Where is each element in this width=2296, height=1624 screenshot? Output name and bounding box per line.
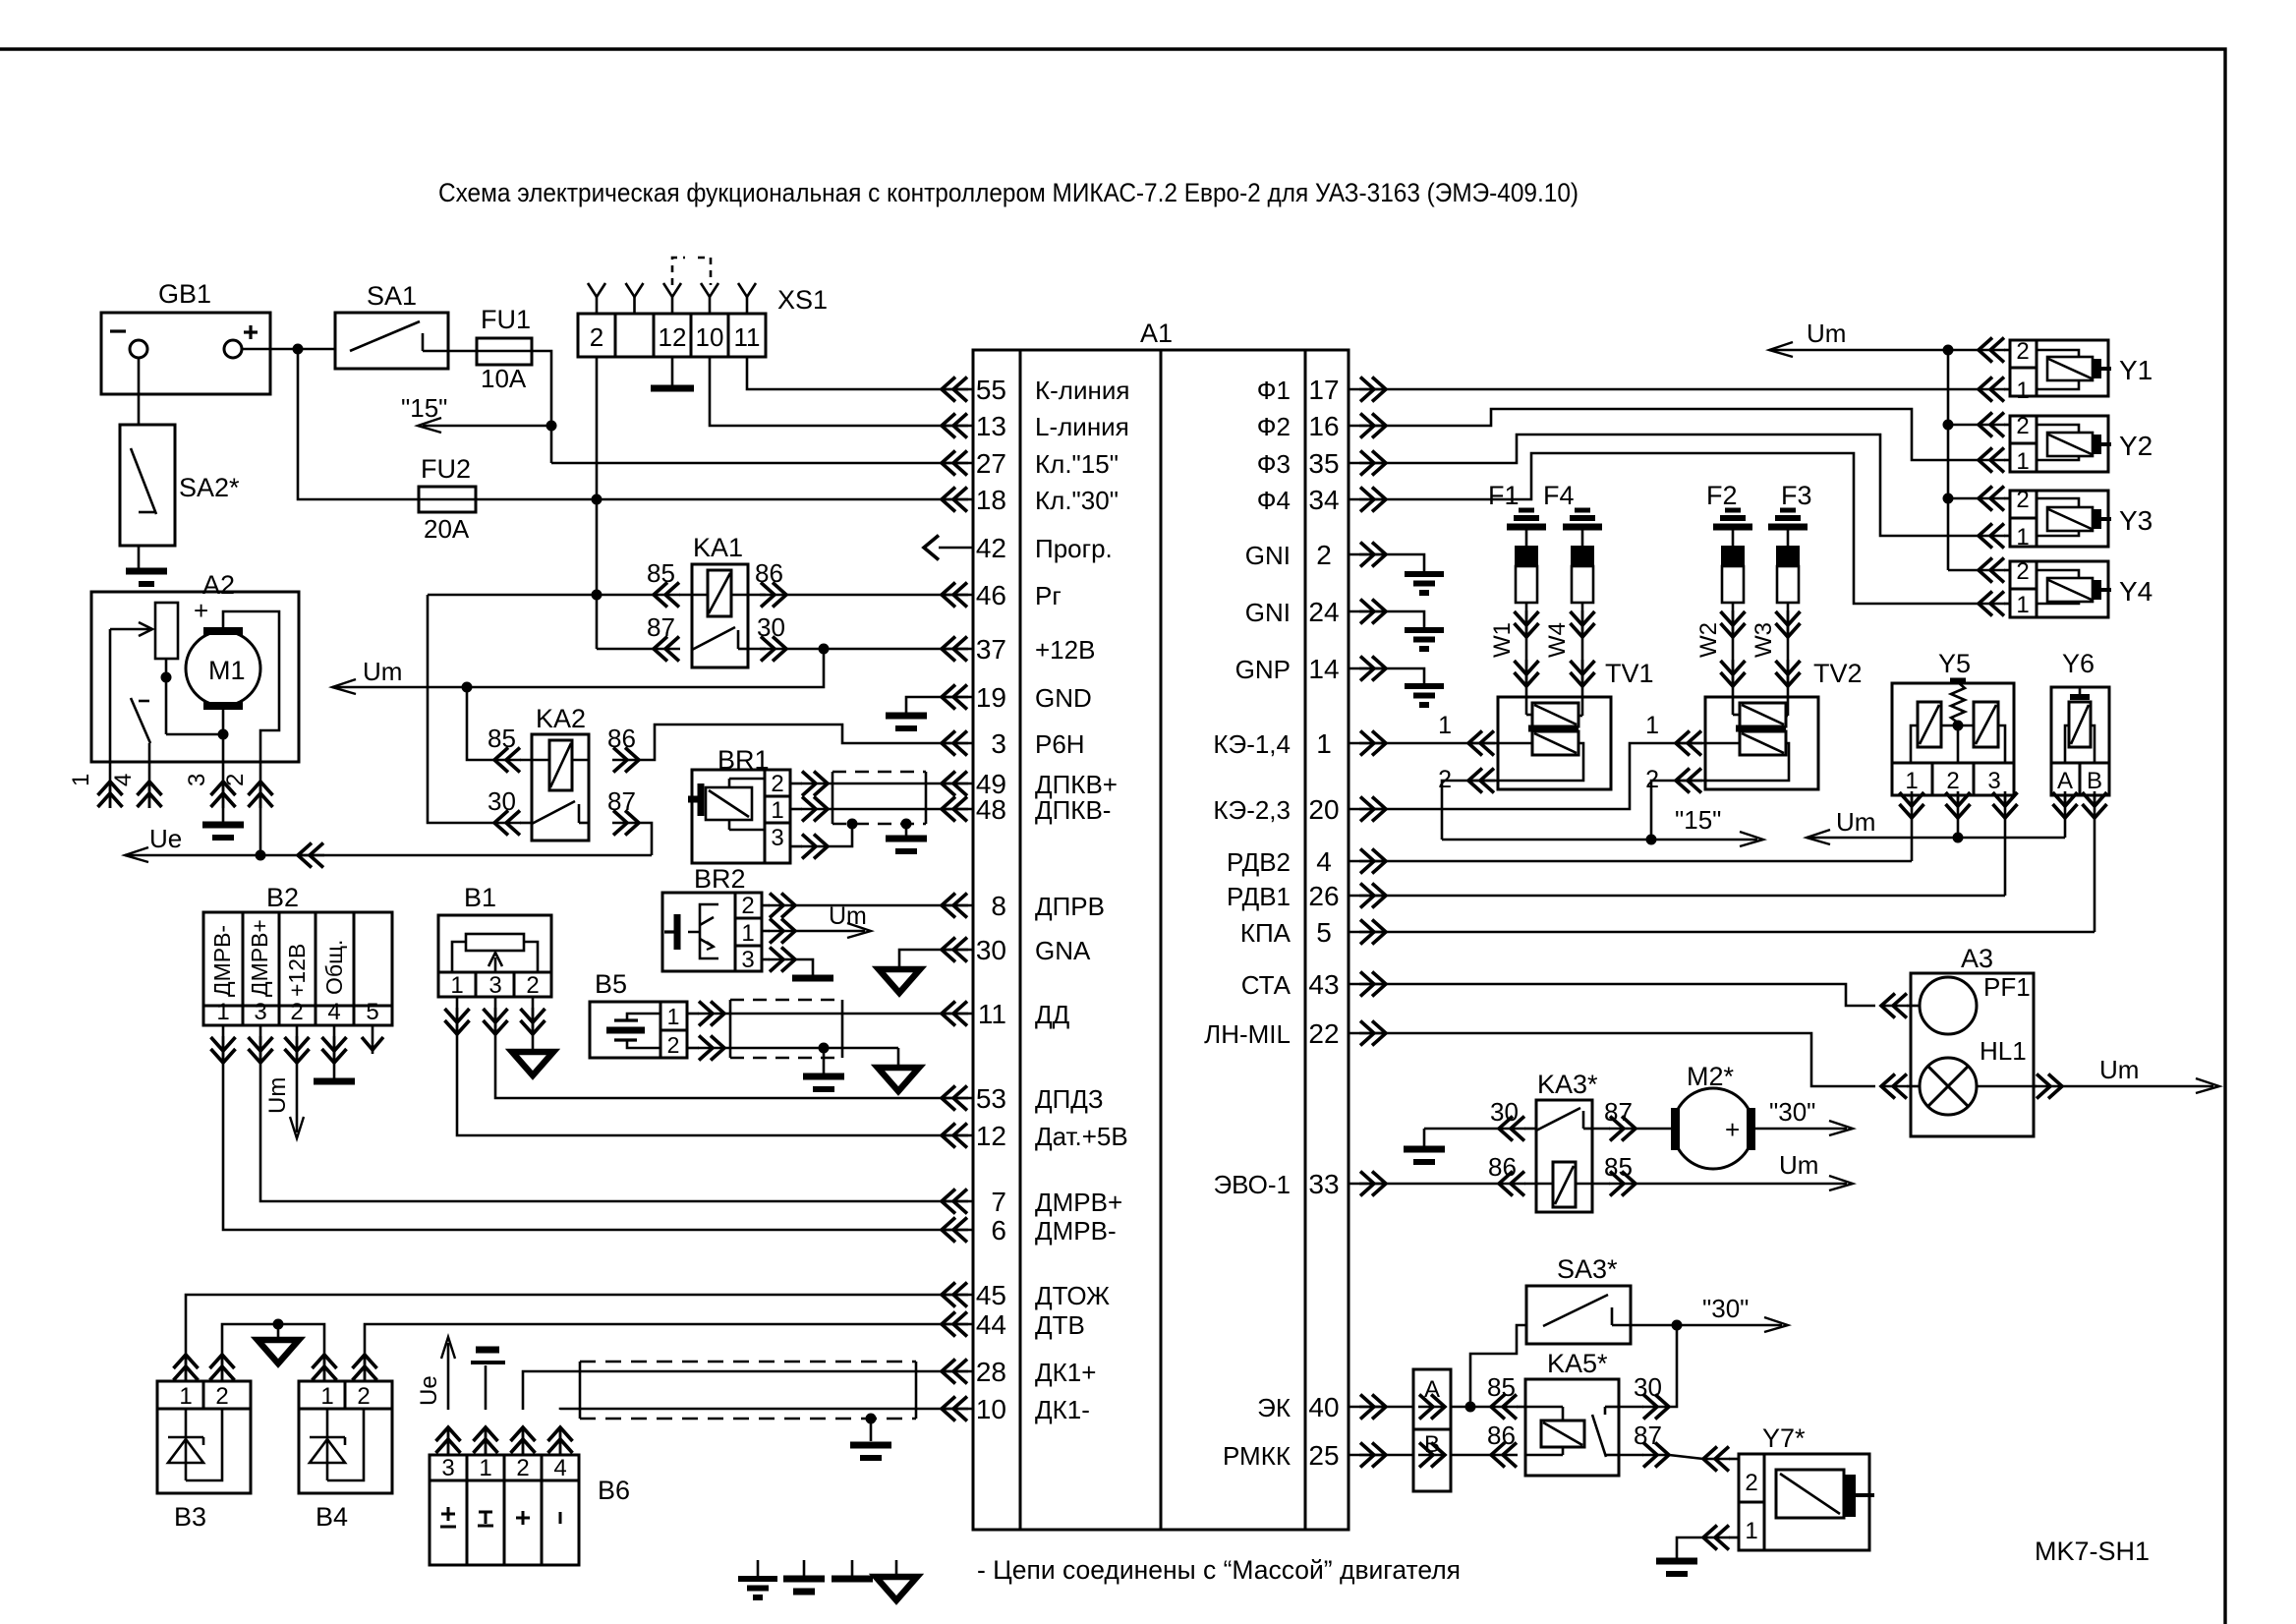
svg-text:12: 12 <box>976 1121 1006 1151</box>
wire GNI/GNP to earth <box>1386 668 1424 686</box>
svg-text:30: 30 <box>1634 1372 1662 1402</box>
temperature sensor B3 <box>157 1381 251 1493</box>
svg-text:Um: Um <box>1836 807 1875 837</box>
svg-text:Кл."15": Кл."15" <box>1035 449 1119 479</box>
svg-text:SA1: SA1 <box>367 281 417 311</box>
svg-text:3: 3 <box>771 825 783 851</box>
svg-text:К-линия: К-линия <box>1035 376 1129 405</box>
KA3 contact blade <box>1536 1108 1580 1131</box>
svg-text:Ue: Ue <box>416 1375 442 1406</box>
B5 pin1 to A1 DD <box>698 1013 724 1015</box>
svg-text:Um: Um <box>1807 319 1846 348</box>
svg-text:SA2*: SA2* <box>179 473 240 502</box>
svg-text:Ф3: Ф3 <box>1257 449 1291 479</box>
wire SA2 to ground <box>138 546 141 568</box>
B1 pin arrows <box>456 1008 459 1034</box>
wire SA1 to FU1 <box>448 350 477 353</box>
spark plug F4 <box>1575 508 1590 513</box>
svg-text:1: 1 <box>667 1004 680 1029</box>
svg-text:Y2: Y2 <box>2119 431 2152 461</box>
svg-text:M2*: M2* <box>1687 1062 1735 1091</box>
svg-text:22: 22 <box>1308 1018 1339 1049</box>
svg-text:45: 45 <box>976 1280 1006 1310</box>
svg-text:ДМРВ+: ДМРВ+ <box>247 919 272 997</box>
B6 pin arrows <box>447 1427 450 1454</box>
wire A1 LN-MIL to HL1 <box>1386 1033 1875 1086</box>
svg-text:КПА: КПА <box>1240 918 1291 948</box>
svg-text:ДПРВ: ДПРВ <box>1035 892 1105 921</box>
svg-text:2: 2 <box>526 972 539 999</box>
svg-text:F2: F2 <box>1706 481 1738 510</box>
spark plug F3 wire with connector marks <box>1787 603 1790 697</box>
svg-text:10A: 10A <box>481 364 527 393</box>
svg-text:5: 5 <box>366 999 378 1025</box>
svg-text:2: 2 <box>2016 413 2029 439</box>
wire A1 KPA to Y6 pinB <box>1386 931 2095 934</box>
injector Y3 <box>2010 491 2037 547</box>
earth ground <box>1405 627 1444 633</box>
svg-text:Рг: Рг <box>1035 581 1062 610</box>
svg-text:17: 17 <box>1308 375 1339 405</box>
KA1 coil terminal 86 arrow <box>731 594 766 597</box>
BR2 hall element <box>700 904 718 958</box>
svg-text:HL1: HL1 <box>1980 1036 2027 1066</box>
A2 pin1 lead <box>109 629 112 762</box>
svg-text:3: 3 <box>488 972 501 999</box>
KA2 87 arrow <box>612 822 639 825</box>
B2 pin4 ground <box>333 1025 336 1078</box>
BR2 magnet bar <box>674 914 681 950</box>
svg-text:86: 86 <box>607 724 636 753</box>
A2 pin arrows <box>109 782 112 808</box>
motor M1 <box>186 631 260 706</box>
injector Y1 <box>2010 340 2037 396</box>
svg-text:16: 16 <box>1308 411 1339 441</box>
Y7 pin1 to ground <box>1703 1537 1730 1539</box>
svg-text:48: 48 <box>976 794 1006 825</box>
spark plug F1 wire with connector marks <box>1525 603 1528 697</box>
svg-text:18: 18 <box>976 485 1006 515</box>
svg-text:7: 7 <box>991 1187 1006 1217</box>
wire A1 GND pin19 to massa <box>906 697 942 713</box>
ground link B3 pin2 to B4 pin1 <box>222 1324 324 1337</box>
wire FU1 output down to Kl.15 row <box>532 351 551 463</box>
svg-text:Y5: Y5 <box>1938 649 1971 678</box>
svg-text:GND: GND <box>1035 683 1092 713</box>
svg-text:M1: M1 <box>208 656 246 685</box>
B5 piezo element <box>614 1018 638 1021</box>
KA1 contact terminal 87 arrow <box>654 648 680 651</box>
svg-text:РМКК: РМКК <box>1223 1441 1291 1471</box>
earth ground <box>1405 683 1444 689</box>
wire left branch down to KA2 contact 30 <box>428 595 494 823</box>
svg-text:13: 13 <box>976 411 1006 441</box>
B2 pin2 wire Um output arrow <box>296 1025 299 1132</box>
B1 wiper arrow <box>494 957 497 972</box>
svg-text:ЛН-MIL: ЛН-MIL <box>1204 1019 1291 1049</box>
svg-text:20A: 20A <box>424 514 470 544</box>
svg-text:Y1: Y1 <box>2119 355 2152 385</box>
svg-text:12: 12 <box>659 322 687 352</box>
KA2 86 arrow <box>572 759 589 762</box>
svg-text:43: 43 <box>1308 969 1339 1000</box>
MIL lamp HL1 <box>1920 1058 1977 1115</box>
svg-text:10: 10 <box>976 1394 1006 1424</box>
Y5 coil outer leads <box>1911 725 1918 763</box>
ground triangle on temp sensor link <box>277 1324 280 1338</box>
wire SA3 feed from EK node <box>1470 1325 1526 1407</box>
svg-text:KA5*: KA5* <box>1547 1349 1608 1378</box>
svg-text:ДПКВ-: ДПКВ- <box>1035 795 1111 825</box>
ignition switch SA1 <box>335 313 448 369</box>
shield box around knock line <box>730 999 842 1002</box>
shield box around oxygen sensor lines <box>580 1361 916 1363</box>
svg-text:4: 4 <box>1316 846 1332 877</box>
svg-text:РДВ1: РДВ1 <box>1227 882 1291 911</box>
svg-text:3: 3 <box>741 947 754 973</box>
spark plug F4 wire with connector marks <box>1581 603 1584 697</box>
wire TV2 pin2 down to 15 rail <box>1651 781 1676 840</box>
svg-text:86: 86 <box>1487 1421 1516 1450</box>
svg-text:A3: A3 <box>1961 944 1993 973</box>
svg-text:KA3*: KA3* <box>1537 1070 1598 1099</box>
GNA row ground triangle <box>899 950 942 967</box>
svg-text:TV1: TV1 <box>1605 659 1654 688</box>
shield box around DPKV pair <box>832 771 926 774</box>
svg-text:- Цепи соединены с “Массой: - Цепи соединены с “Массой” двигателя <box>977 1555 1461 1585</box>
svg-text:1: 1 <box>1316 728 1332 759</box>
svg-text:Um: Um <box>829 902 867 930</box>
svg-text:2: 2 <box>1316 540 1332 570</box>
svg-text:1: 1 <box>216 999 229 1025</box>
svg-text:B: B <box>2087 768 2102 794</box>
B3 pin arrows <box>185 1355 188 1381</box>
svg-text:ЭВО-1: ЭВО-1 <box>1213 1170 1291 1199</box>
svg-text:1: 1 <box>479 1455 491 1481</box>
BR1 pin3 arrow to shield ground <box>801 845 828 848</box>
svg-text:+: + <box>194 596 208 625</box>
svg-text:4: 4 <box>553 1455 566 1481</box>
B1 pin1 wire to A1 +5V <box>457 997 942 1135</box>
svg-text:BR2: BR2 <box>694 864 746 894</box>
wire TV1 pin2 down to 15 rail <box>1442 781 1471 840</box>
coil TV2 secondary terminal 2 <box>1676 743 1789 781</box>
svg-text:Y4: Y4 <box>2119 576 2152 607</box>
earth ground <box>1405 571 1444 577</box>
wire A1 RDV2 to Y5 pin1 <box>1386 860 1912 863</box>
fuse FU2 20A <box>419 487 476 512</box>
svg-text:24: 24 <box>1308 597 1339 627</box>
svg-text:53: 53 <box>976 1083 1006 1114</box>
BR1 pin2 arrow to A1 DPKV+ <box>801 783 828 785</box>
wire A1 EVO-1 to KA3 86 <box>1386 1183 1499 1186</box>
svg-text:6: 6 <box>991 1215 1006 1246</box>
injector Y2 pin arrows <box>1979 424 2005 427</box>
ignition coil TV2 <box>1705 697 1818 789</box>
svg-text:КЭ-1,4: КЭ-1,4 <box>1213 729 1291 759</box>
svg-text:1: 1 <box>741 920 754 947</box>
BR1 coil <box>706 787 752 820</box>
KA3 87 output arrow <box>1609 1128 1636 1131</box>
svg-text:F4: F4 <box>1543 481 1575 510</box>
battery GB1 <box>101 313 270 394</box>
wire SA3 to 30 arrow <box>1631 1324 1677 1327</box>
svg-text:Y6: Y6 <box>2062 649 2095 678</box>
ground (massa) under SA2 <box>126 568 167 575</box>
wire FU2 to XS1 pin2 node <box>476 498 942 501</box>
svg-text:2: 2 <box>741 893 754 919</box>
svg-text:ДПДЗ: ДПДЗ <box>1035 1084 1104 1114</box>
svg-text:1: 1 <box>771 797 783 824</box>
svg-text:СТА: СТА <box>1241 970 1291 1000</box>
svg-text:1: 1 <box>68 774 94 786</box>
B1 pin2 wire to ground triangle <box>532 997 535 1050</box>
B2 pin5 stub <box>372 1025 374 1054</box>
svg-text:11: 11 <box>978 999 1006 1029</box>
svg-text:MK7-SH1: MK7-SH1 <box>2035 1537 2150 1566</box>
coil TV1 primary stubs <box>1525 697 1528 715</box>
ground (massa) under XS1 pin 12 <box>651 385 694 392</box>
KA2 30 arrow <box>494 822 521 825</box>
wire KA2 86 to A1 pin3 R6N <box>639 725 942 760</box>
wire B6 pin4 to A1 DK1- <box>560 1409 942 1410</box>
shield ground <box>905 824 908 836</box>
svg-text:2: 2 <box>357 1383 370 1410</box>
wire A1 STA to PF1 <box>1386 984 1875 1006</box>
injector Y3 pin arrows <box>1979 497 2005 500</box>
svg-text:Дат.+5В: Дат.+5В <box>1035 1122 1128 1151</box>
BR1 coil leads <box>729 778 765 781</box>
B6 pin1 heater cap symbol <box>485 1365 488 1410</box>
svg-text:GNI: GNI <box>1245 598 1291 627</box>
svg-text:34: 34 <box>1308 485 1339 515</box>
wire KA5 87 to Y7 <box>1669 1455 1703 1459</box>
svg-text:F1: F1 <box>1488 481 1520 510</box>
svg-text:Um: Um <box>264 1077 291 1114</box>
svg-text:2: 2 <box>1745 1470 1757 1496</box>
fuel feed line with Ue arrow <box>125 854 652 857</box>
connector A/B <box>1413 1369 1451 1491</box>
B6 pin3 Ue output arrow <box>447 1343 450 1410</box>
wire A2 pin2 down to fuel pump feed line <box>259 808 262 855</box>
spark plug F1 <box>1519 508 1534 513</box>
svg-text:19: 19 <box>976 682 1006 713</box>
wire F1 phase pin17 to injector Y1 <box>1386 388 1979 391</box>
temperature sensor B4 <box>299 1381 392 1493</box>
A2 low fuel switch <box>139 700 149 703</box>
svg-text:XS1: XS1 <box>777 285 828 315</box>
svg-text:B3: B3 <box>174 1502 206 1532</box>
Um arrow feed for injectors <box>1769 349 1948 352</box>
svg-text:"15": "15" <box>401 393 447 423</box>
svg-text:1: 1 <box>450 972 463 999</box>
wire battery node down to FU2 <box>298 349 419 499</box>
B6 cell symbols <box>441 1513 455 1516</box>
svg-text:85: 85 <box>488 724 516 753</box>
bus stubs to injector pin2 <box>1948 424 1979 427</box>
legend ground symbols <box>757 1560 760 1577</box>
svg-text:28: 28 <box>976 1357 1006 1387</box>
tachometer PF1 <box>1920 977 1977 1034</box>
KA2 85 arrow and feed from Um rail <box>467 687 494 760</box>
knock shield ground <box>823 1048 826 1073</box>
svg-text:46: 46 <box>976 580 1006 610</box>
svg-text:3: 3 <box>254 999 266 1025</box>
svg-text:27: 27 <box>976 448 1006 479</box>
svg-text:2: 2 <box>771 771 783 797</box>
svg-text:B1: B1 <box>464 883 496 912</box>
spark plug F3 <box>1780 508 1796 513</box>
injector Y4 <box>2010 561 2037 617</box>
connector XS1 <box>578 314 766 357</box>
KA3 85 output to Um <box>1576 1183 1610 1186</box>
A2 wiper arrow <box>110 628 149 631</box>
svg-text:20: 20 <box>1308 794 1339 825</box>
svg-text:ДК1-: ДК1- <box>1035 1395 1090 1424</box>
wire B3 pin1 to A1 DTOZh <box>186 1295 942 1337</box>
svg-text:3: 3 <box>184 774 210 786</box>
B4 thermistor symbol <box>326 1409 329 1480</box>
B1 pin3 wire to A1 DPDZ <box>495 997 942 1098</box>
svg-text:11: 11 <box>734 322 761 352</box>
svg-text:1: 1 <box>1905 768 1918 794</box>
wire Y6 pinA to Um rail <box>2064 818 2067 838</box>
svg-text:87: 87 <box>647 612 675 642</box>
wire A1 RDV1 to Y5 pin3 <box>1386 895 2005 898</box>
svg-text:Ф1: Ф1 <box>1257 376 1291 405</box>
wire KA1 86 to A1 pin46 <box>786 594 942 597</box>
wire phase pin34 to injector Y4 <box>1386 453 1979 604</box>
svg-text:40: 40 <box>1308 1392 1339 1422</box>
svg-text:GNI: GNI <box>1245 541 1291 570</box>
svg-text:ДМРВ-: ДМРВ- <box>209 925 235 997</box>
svg-text:+12В: +12В <box>1035 635 1095 665</box>
node 15 arrow <box>423 425 551 428</box>
wire KA1 30 to A1 pin37 +12V <box>786 648 942 651</box>
wire B4 pin2 to A1 DTV <box>365 1324 942 1337</box>
svg-text:B6: B6 <box>598 1476 630 1505</box>
svg-text:ДМРВ+: ДМРВ+ <box>1035 1188 1122 1217</box>
svg-text:"30": "30" <box>1702 1294 1749 1323</box>
fuse FU1 10A <box>477 338 532 365</box>
coil TV2 primary stubs <box>1732 697 1735 715</box>
svg-text:2: 2 <box>215 1383 228 1410</box>
KA3 coil <box>1553 1162 1576 1207</box>
svg-text:30: 30 <box>488 786 516 816</box>
injector +12V bus <box>1947 350 1950 570</box>
wire from KA2 87 down to fuel line <box>639 823 652 855</box>
wire phase pin35 to injector Y3 <box>1386 435 1979 536</box>
svg-text:Ф2: Ф2 <box>1257 412 1291 441</box>
wire Kl.15 row to A1 pin27 <box>551 462 942 465</box>
svg-text:КЭ-2,3: КЭ-2,3 <box>1213 795 1291 825</box>
svg-text:30: 30 <box>1490 1097 1519 1127</box>
ignition coil TV1 <box>1498 697 1611 789</box>
coil TV2 secondary terminal 1 <box>1676 742 1740 745</box>
Y6 coil <box>2079 687 2082 695</box>
wire XS1 pin2 down (battery 30 feed) <box>596 357 599 595</box>
svg-text:26: 26 <box>1308 881 1339 911</box>
M1 minus lead to pin3 <box>222 710 225 762</box>
svg-text:Прогр.: Прогр. <box>1035 534 1113 563</box>
injector Y4 pin arrows <box>1979 569 2005 572</box>
svg-text:3: 3 <box>441 1455 454 1481</box>
antenna pins on XS1 <box>596 297 599 314</box>
svg-text:ДД: ДД <box>1035 1000 1070 1029</box>
svg-text:87: 87 <box>1604 1097 1633 1127</box>
wire A1 EK to connector A <box>1386 1406 1413 1409</box>
svg-text:30: 30 <box>757 612 785 642</box>
wire node to KA1 85 and down to KA2 <box>597 594 654 597</box>
svg-text:W4: W4 <box>1544 622 1571 658</box>
svg-text:1: 1 <box>1438 712 1452 739</box>
B5 pin2 to ground <box>698 1047 724 1050</box>
B2 pin arrows <box>222 1036 225 1063</box>
KA5 85 arrow <box>1491 1406 1518 1409</box>
svg-text:Um: Um <box>363 657 402 686</box>
svg-text:4: 4 <box>327 999 340 1025</box>
Y7 pin2 arrow <box>1703 1458 1730 1461</box>
BR1 magnet core <box>698 783 705 816</box>
svg-text:37: 37 <box>976 634 1006 665</box>
svg-text:14: 14 <box>1308 654 1339 684</box>
BR1 pin1 arrow to A1 DPKV- <box>801 808 828 811</box>
wire A1 KE-1,4 to TV1 pin1 <box>1386 742 1468 745</box>
oxygen shield ground <box>870 1419 873 1441</box>
svg-text:B5: B5 <box>595 969 627 999</box>
wire GNI/GNP to earth <box>1386 554 1424 574</box>
Y5 pin arrows <box>1911 791 1914 818</box>
svg-text:2: 2 <box>2016 558 2029 585</box>
B1 potentiometer <box>466 934 524 951</box>
svg-text:A: A <box>2057 768 2073 794</box>
svg-text:W3: W3 <box>1751 622 1777 658</box>
wire XS1 pin10 to L-line pin13 <box>710 357 942 426</box>
svg-text:2: 2 <box>590 322 603 352</box>
KA1 contact terminal 30 arrow <box>748 648 766 651</box>
svg-text:85: 85 <box>1487 1372 1516 1402</box>
svg-text:10: 10 <box>696 322 724 352</box>
svg-text:86: 86 <box>1488 1152 1517 1182</box>
svg-text:GB1: GB1 <box>158 279 211 309</box>
svg-text:"30": "30" <box>1769 1097 1815 1127</box>
KA3 ground feed to contact 30 <box>1424 1128 1499 1131</box>
wire XS1 pin11 to K-line pin55 <box>747 357 942 389</box>
svg-text:55: 55 <box>976 375 1006 405</box>
svg-text:TV2: TV2 <box>1813 659 1863 688</box>
svg-text:ДТВ: ДТВ <box>1035 1310 1085 1340</box>
svg-text:РДВ2: РДВ2 <box>1227 847 1291 877</box>
svg-text:87: 87 <box>607 786 636 816</box>
disconnect switch SA2* <box>120 425 175 546</box>
KA5 coil <box>1525 1406 1563 1409</box>
svg-text:1: 1 <box>2016 377 2029 404</box>
svg-text:1: 1 <box>320 1383 333 1410</box>
svg-text:Ф4: Ф4 <box>1257 486 1291 515</box>
svg-text:2: 2 <box>2016 487 2029 513</box>
HL1 output to Um <box>1977 1085 2034 1088</box>
A2 resistor bottom lead <box>165 659 168 734</box>
svg-text:42: 42 <box>976 533 1006 563</box>
B2 pin3 wire to A1 DMRV+ <box>260 1025 942 1201</box>
wire GB1+ to SA1 <box>242 348 335 351</box>
KA5 30 output arrow <box>1642 1406 1669 1409</box>
svg-text:+12В: +12В <box>284 944 310 997</box>
spark plug F2 wire with connector marks <box>1732 603 1735 697</box>
svg-text:2: 2 <box>290 999 303 1025</box>
M2 feed wire <box>1636 1128 1671 1131</box>
Y6 coil leads <box>2065 725 2069 763</box>
